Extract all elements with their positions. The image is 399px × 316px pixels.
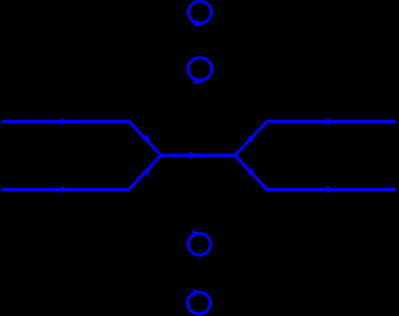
- wire: central propagator line: [161, 154, 235, 157]
- arrow on bottom-left horizontal line: [60, 186, 68, 194]
- arrow on upper-right diagonal: [246, 132, 258, 144]
- wire: incoming top-left fermion line: [2, 122, 161, 156]
- arrow on lower-left diagonal: [141, 165, 153, 177]
- loop circle 3: [188, 229, 210, 256]
- wire: outgoing top-right fermion line: [235, 122, 396, 156]
- loop circle 4 (bottom): [188, 287, 211, 313]
- wire: outgoing bottom-right fermion line: [235, 155, 396, 189]
- arrow on lower-right diagonal: [246, 167, 258, 179]
- arrow on bottom-right horizontal line: [326, 186, 334, 194]
- arrow on central propagator: [189, 151, 200, 159]
- wire: incoming bottom-left fermion line: [2, 155, 161, 189]
- loop circle 2: [188, 58, 212, 88]
- arrow on top-right horizontal line: [326, 118, 334, 126]
- loop circle 1 (top): [189, 1, 212, 30]
- arrow on upper-left diagonal: [141, 133, 153, 145]
- arrow on top-left horizontal line: [60, 118, 68, 126]
